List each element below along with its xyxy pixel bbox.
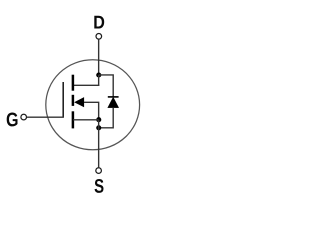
node: source junction dot	[96, 117, 101, 122]
channel bottom segment	[72, 111, 75, 128]
wire: drain terminal to junction	[98, 40, 100, 76]
gate bar	[62, 82, 64, 117]
node: drain junction dot	[96, 72, 101, 77]
transistor body circle	[46, 60, 140, 150]
wire: junction to source terminal	[98, 120, 100, 168]
wire: diode branch top	[99, 75, 114, 97]
channel top segment	[72, 75, 75, 91]
node: diode bottom junction dot	[96, 125, 101, 130]
terminal D	[96, 34, 102, 40]
wire: junction down to drain lead	[98, 75, 100, 86]
label D	[94, 16, 104, 29]
wire: body lead	[84, 102, 99, 119]
wire: gate lead	[27, 116, 64, 118]
wire: diode branch bottom	[99, 107, 114, 127]
label S	[95, 179, 104, 193]
diode D1 triangle	[108, 97, 119, 107]
diode D1 cathode bar	[108, 96, 119, 98]
wire: source lead	[73, 119, 98, 121]
terminal G	[21, 114, 27, 120]
wire: drain lead to channel top	[73, 84, 99, 86]
body arrow	[74, 97, 84, 107]
terminal S	[96, 168, 102, 174]
label G	[7, 113, 18, 127]
channel middle segment	[72, 95, 75, 106]
